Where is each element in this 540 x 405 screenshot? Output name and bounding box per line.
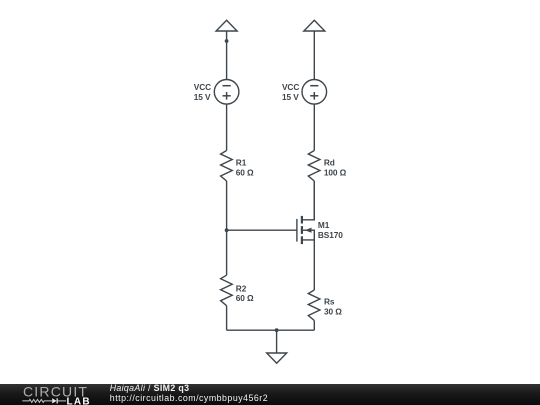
resistor R2: [221, 275, 254, 306]
svg-text:30 Ω: 30 Ω: [324, 306, 342, 316]
wire (drain): [313, 181, 315, 220]
wire (gate): [227, 229, 297, 231]
svg-text:100 Ω: 100 Ω: [324, 167, 347, 177]
voltage source V1 (VCC 15 V): [194, 80, 239, 105]
svg-text:HaiqaAli / SIM2 q3: HaiqaAli / SIM2 q3: [110, 383, 190, 393]
node junction (gate node): [225, 228, 229, 232]
wire (bottom rail): [227, 329, 315, 331]
svg-text:15 V: 15 V: [282, 92, 299, 102]
VCC power flag (right): [304, 20, 325, 31]
svg-text:60 Ω: 60 Ω: [236, 293, 254, 303]
node junction: [275, 328, 279, 332]
svg-text:LAB: LAB: [67, 396, 91, 405]
wire: [226, 306, 228, 331]
resistor Rd: [308, 151, 346, 182]
node junction: [225, 39, 229, 43]
footer bar: [0, 384, 540, 405]
svg-text:BS170: BS170: [318, 230, 343, 240]
svg-text:M1: M1: [318, 220, 330, 230]
wire (source): [313, 240, 315, 290]
ground: [267, 353, 287, 363]
svg-text:Rd: Rd: [324, 158, 335, 168]
wire: [313, 104, 315, 150]
resistor Rs: [308, 290, 342, 321]
transistor M1 (BS170 NMOS): [297, 181, 343, 244]
wire: [226, 104, 228, 150]
svg-text:15 V: 15 V: [194, 92, 211, 102]
svg-text:R2: R2: [236, 283, 247, 293]
resistor R1: [221, 151, 254, 182]
svg-text:VCC: VCC: [194, 82, 211, 92]
wire: [313, 31, 315, 80]
svg-text:R1: R1: [236, 158, 247, 168]
wire: [226, 181, 228, 275]
svg-text:http://circuitlab.com/cymbbpuy: http://circuitlab.com/cymbbpuy456r2: [110, 393, 268, 403]
VCC power flag (left): [216, 20, 237, 31]
wire: [226, 31, 228, 80]
wire: [276, 330, 278, 353]
svg-text:60 Ω: 60 Ω: [236, 167, 254, 177]
wire: [313, 321, 315, 331]
svg-text:VCC: VCC: [282, 82, 299, 92]
svg-text:Rs: Rs: [324, 296, 335, 306]
CircuitLab logo: [22, 384, 91, 405]
voltage source V2 (VCC 15 V): [282, 80, 327, 105]
